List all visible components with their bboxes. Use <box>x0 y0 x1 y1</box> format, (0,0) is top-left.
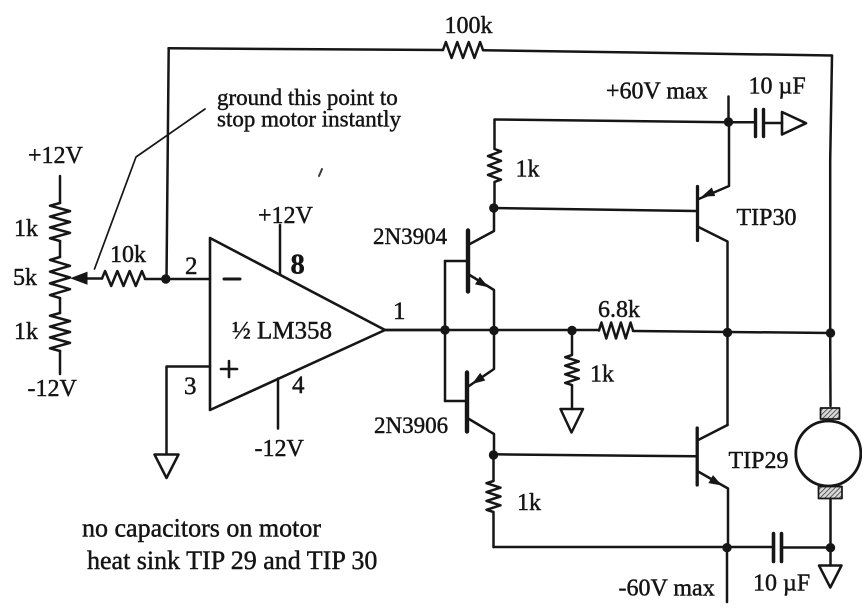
wire: top feedback rail right segment <box>483 50 832 55</box>
wire: pin 3 to ground <box>167 367 211 455</box>
node: Q4 emitter / bottom rail junction <box>722 543 731 552</box>
motor M1 body <box>796 421 861 486</box>
capacitor C1 10uF plates <box>756 110 764 137</box>
wire: op-amp output pin 1 <box>385 329 445 332</box>
svg-text:+12V: +12V <box>258 203 314 229</box>
wire: bottom rail right of C2 <box>784 546 831 549</box>
svg-text:10k: 10k <box>110 242 146 268</box>
annotation leader line <box>95 109 206 269</box>
svg-text:-12V: -12V <box>255 436 305 462</box>
node: Q1 collector / Q3 base junction <box>489 203 498 212</box>
svg-text:10 µF: 10 µF <box>749 74 806 100</box>
ground (op-amp pin 3) <box>155 455 179 479</box>
transistor Q3 emitter <box>698 122 730 200</box>
op-amp non-inverting plus sign <box>221 361 237 377</box>
svg-text:2: 2 <box>185 253 198 280</box>
svg-text:½ LM358: ½ LM358 <box>232 318 332 345</box>
node: Q2 collector / Q4 base junction <box>489 450 498 459</box>
svg-text:2N3904: 2N3904 <box>373 224 448 249</box>
transistor Q4 collector <box>697 425 727 441</box>
svg-text:1k: 1k <box>14 319 38 345</box>
resistor R2 10k <box>102 271 145 286</box>
resistor R5 1k (divider lower) <box>50 313 70 351</box>
svg-text:1k: 1k <box>14 216 38 242</box>
resistor R7 1k (lower bias) <box>487 455 501 547</box>
svg-text:3: 3 <box>184 373 197 400</box>
wire: +12V to R3 <box>59 176 62 203</box>
svg-text:-12V: -12V <box>28 376 78 402</box>
op-amp U1 triangle <box>210 238 385 410</box>
resistor R9 1k (to ground) <box>565 331 579 410</box>
wire: node to pin 2 <box>166 278 210 281</box>
transistor Q2 collector <box>469 419 494 455</box>
wire: C1 to arrow <box>766 122 783 125</box>
wire: top rail <box>495 120 729 123</box>
resistor R8 6.8k <box>599 323 633 339</box>
transistor Q4 TIP29 base bar <box>696 428 699 485</box>
wire: R2 to inverting node <box>145 278 166 281</box>
node: top rail / Q3 emitter junction <box>724 117 733 126</box>
ground (below 1k) <box>561 409 584 433</box>
svg-text:TIP30: TIP30 <box>737 205 797 231</box>
resistor R6 1k (upper bias) <box>488 120 501 209</box>
wire: Q3 base wire <box>494 208 696 211</box>
svg-text:10 µF: 10 µF <box>753 571 810 597</box>
pin 4 supply wire <box>277 379 280 429</box>
node: Q1/Q2 emitter junction <box>489 326 498 335</box>
svg-text:100k: 100k <box>445 13 493 39</box>
wire: wiper to R2 <box>87 277 102 280</box>
resistor R3 1k (divider upper) <box>50 203 70 241</box>
wire: feedback vertical drop to inverting node <box>167 48 169 279</box>
svg-text:2N3906: 2N3906 <box>374 413 448 438</box>
ground (motor return) <box>819 566 842 588</box>
resistor R1 100k (feedback) <box>443 42 483 58</box>
svg-text:6.8k: 6.8k <box>598 297 640 323</box>
svg-text:TIP29: TIP29 <box>729 448 789 474</box>
potentiometer wiper arrow <box>70 272 88 285</box>
capacitor C2 10uF plates <box>774 534 782 562</box>
node: inverting input junction <box>161 274 170 283</box>
svg-text:heat sink TIP 29 and TIP 30: heat sink TIP 29 and TIP 30 <box>87 546 377 575</box>
node: motor bottom junction <box>826 543 835 552</box>
wire: bottom rail left <box>494 546 772 549</box>
transistor Q3 TIP30 base bar <box>696 187 699 241</box>
svg-text:4: 4 <box>292 372 305 399</box>
wire: R5 to -12V <box>59 351 62 374</box>
potentiometer R4 5k element <box>50 257 70 298</box>
transistor Q1 emitter arrow <box>475 277 489 288</box>
svg-text:1k: 1k <box>590 362 614 388</box>
wire: motor bottom lead <box>829 499 832 566</box>
svg-text:8: 8 <box>291 250 305 281</box>
transistor Q1 2N3904 base bar <box>466 231 470 292</box>
transistor Q2 emitter arrow <box>472 373 485 384</box>
transistor Q2 emitter <box>469 332 494 386</box>
transistor Q1 collector <box>468 209 494 245</box>
wire: mid rail right of 6.8k <box>633 331 831 333</box>
wire: mid rail (emitters to motor) <box>385 329 599 332</box>
wire: Q1 base stub <box>445 260 467 263</box>
wire: right rail (feedback to motor top) <box>830 56 832 407</box>
wire: pot to R5 <box>59 298 62 313</box>
op-amp inverting minus sign <box>224 278 240 281</box>
transistor Q4 emitter <box>697 471 728 548</box>
transistor Q3 collector <box>698 227 728 426</box>
svg-text:1: 1 <box>393 298 406 325</box>
wire: junction to capacitor C1 <box>729 121 755 124</box>
motor M1 brush (top) <box>821 408 840 419</box>
transistor Q4 emitter arrow <box>708 475 722 485</box>
node: collectors junction <box>723 328 732 337</box>
node: 6.8k / 1k junction <box>567 326 576 335</box>
transistor Q1 emitter <box>468 274 494 330</box>
wire: +60V supply stub <box>727 97 730 123</box>
svg-text:-60V max: -60V max <box>619 576 715 602</box>
wire: Q2 base stub <box>445 400 467 403</box>
wire: Q4 base wire <box>494 454 697 456</box>
svg-text:no capacitors on motor: no capacitors on motor <box>82 514 321 543</box>
svg-text:stop motor instantly: stop motor instantly <box>217 107 402 132</box>
transistor Q2 2N3906 base bar <box>465 373 469 432</box>
svg-text:1k: 1k <box>517 490 541 516</box>
pin 8 supply wire <box>279 225 282 274</box>
svg-text:+60V max: +60V max <box>606 79 708 105</box>
transistor Q3 emitter arrow <box>702 188 716 197</box>
svg-text:5k: 5k <box>13 265 37 291</box>
node: mid rail to right rail junction <box>826 328 835 337</box>
wire: top feedback rail left segment <box>169 48 444 50</box>
node: output to bases junction <box>440 325 449 334</box>
scan artifact tick <box>319 169 322 176</box>
wire: -60V supply stub <box>726 548 729 602</box>
svg-text:1k: 1k <box>516 157 540 183</box>
motor M1 brush (bottom) <box>819 487 843 499</box>
svg-text:+12V: +12V <box>28 143 84 169</box>
wire: R3 to pot <box>59 241 62 257</box>
off-page arrow (top output) <box>782 112 806 135</box>
wire: bases vertical tie <box>444 261 447 401</box>
